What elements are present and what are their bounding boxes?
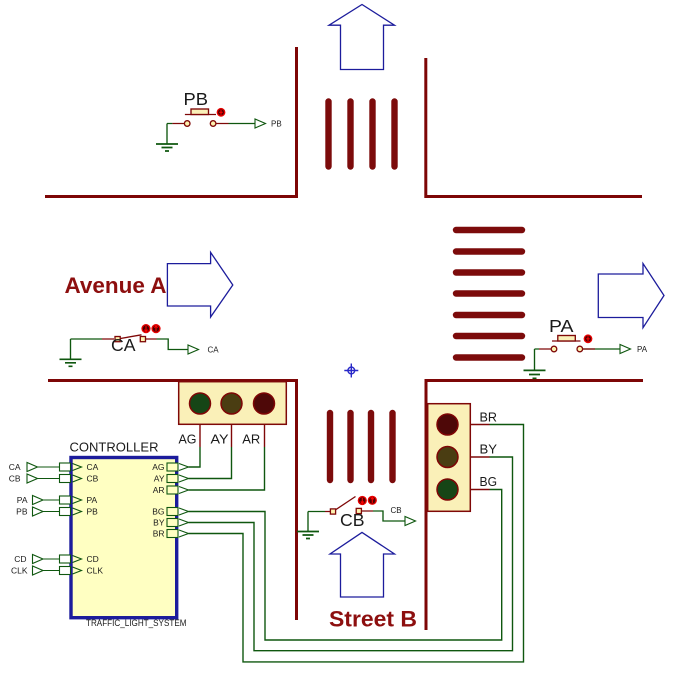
svg-text:PB: PB xyxy=(184,89,209,109)
svg-text:BG: BG xyxy=(480,475,498,489)
svg-text:CA: CA xyxy=(87,462,99,472)
svg-text:BG: BG xyxy=(152,507,164,517)
svg-text:Street B: Street B xyxy=(329,607,417,632)
svg-text:PA: PA xyxy=(637,345,648,354)
svg-text:AG: AG xyxy=(179,433,197,447)
svg-text:BR: BR xyxy=(153,529,165,539)
svg-text:AY: AY xyxy=(154,474,165,484)
svg-text:CB: CB xyxy=(340,510,365,530)
svg-text:CD: CD xyxy=(14,554,26,564)
svg-text:CB: CB xyxy=(87,474,99,484)
svg-text:Avenue A: Avenue A xyxy=(65,273,167,298)
svg-text:AR: AR xyxy=(153,485,165,495)
svg-text:BY: BY xyxy=(480,443,498,457)
svg-text:CLK: CLK xyxy=(11,566,28,576)
svg-text:BY: BY xyxy=(153,518,165,528)
svg-text:TRAFFIC_LIGHT_SYSTEM: TRAFFIC_LIGHT_SYSTEM xyxy=(86,618,187,628)
svg-text:PA: PA xyxy=(87,495,98,505)
svg-text:CLK: CLK xyxy=(87,566,104,576)
svg-text:CONTROLLER: CONTROLLER xyxy=(70,440,159,455)
svg-text:PB: PB xyxy=(271,120,282,129)
svg-text:AR: AR xyxy=(242,433,260,447)
svg-text:AY: AY xyxy=(211,433,230,447)
svg-text:CB: CB xyxy=(391,506,402,515)
svg-text:AG: AG xyxy=(152,462,164,472)
svg-text:PB: PB xyxy=(87,507,99,517)
svg-text:BR: BR xyxy=(480,411,498,425)
svg-text:PA: PA xyxy=(549,316,574,336)
svg-text:CA: CA xyxy=(9,462,21,472)
svg-text:CD: CD xyxy=(87,554,99,564)
svg-text:CB: CB xyxy=(9,474,21,484)
svg-text:CA: CA xyxy=(208,346,220,355)
svg-text:CA: CA xyxy=(111,335,136,355)
svg-text:PB: PB xyxy=(16,507,28,517)
svg-text:PA: PA xyxy=(17,495,28,505)
